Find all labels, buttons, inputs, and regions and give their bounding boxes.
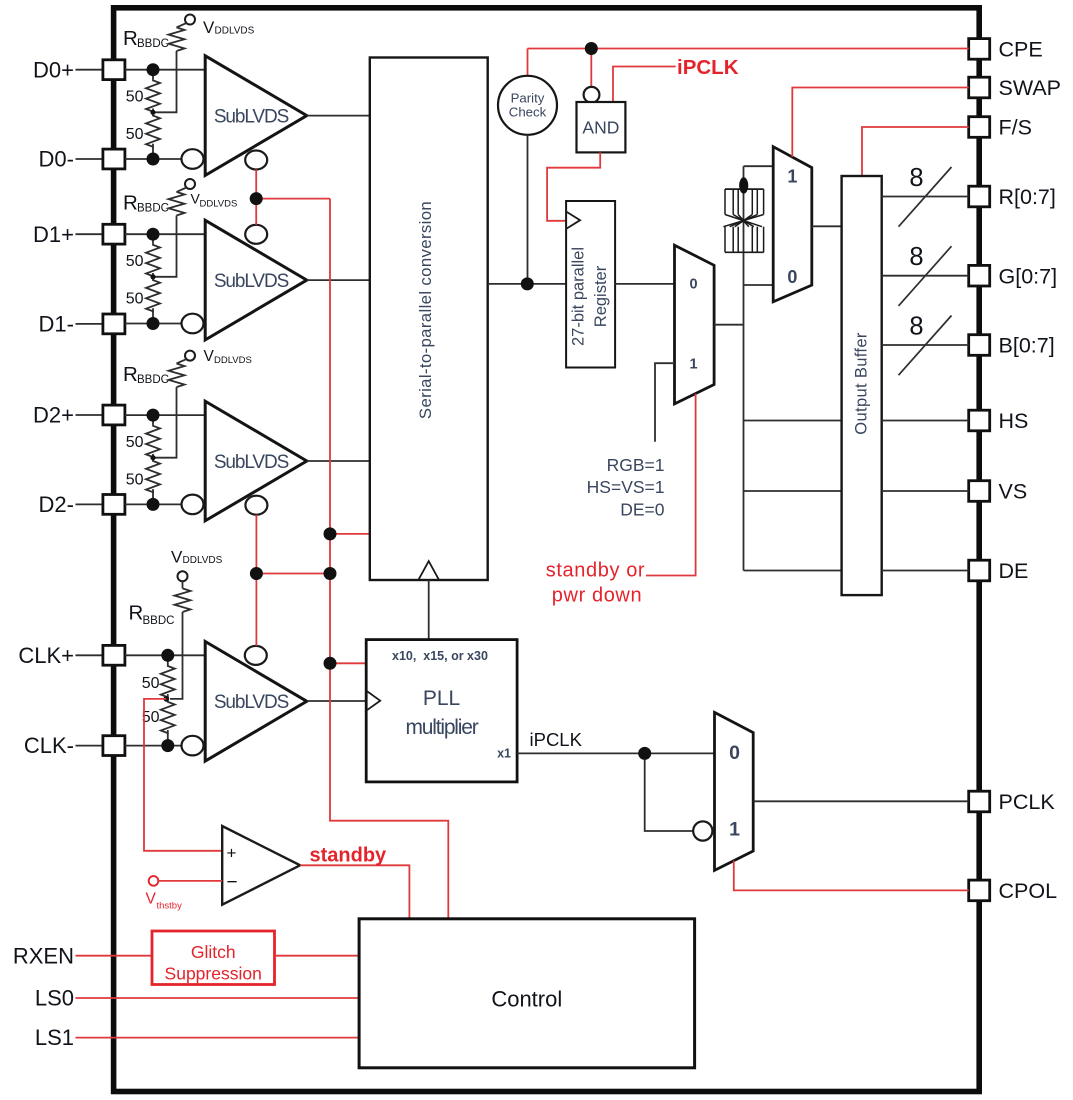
- register 27-bit parallel U2: [566, 201, 615, 368]
- junction node D1-: [147, 317, 160, 330]
- junction node enable D0/D1: [250, 192, 263, 205]
- junction node parity tap: [521, 277, 534, 290]
- junction node enable D2/CLK: [250, 567, 263, 580]
- svg-text:BBDC: BBDC: [137, 38, 169, 50]
- wire CLK+ input line: [125, 654, 205, 656]
- svg-text:50: 50: [126, 89, 144, 106]
- wire VS branch: [744, 490, 842, 492]
- svg-text:DDLVDS: DDLVDS: [215, 26, 255, 37]
- enable bubble under D2 amp: [245, 496, 267, 515]
- wire CPOL select (red): [734, 861, 969, 891]
- pin CLK-: [24, 733, 125, 758]
- wire F/S select (red): [862, 127, 969, 176]
- svg-text:CLK+: CLK+: [18, 643, 74, 668]
- wire AND output to register clock (red): [547, 152, 600, 220]
- wire iPCLK into AND gate (red): [613, 67, 676, 103]
- junction node bus/PLL: [324, 657, 337, 670]
- svg-text:iPCLK: iPCLK: [530, 729, 583, 750]
- wire R[0:7] bus: [882, 164, 969, 227]
- pin VS: [969, 480, 1027, 504]
- pin RXEN: [13, 943, 74, 968]
- wire vertical data net: [743, 166, 745, 570]
- wire glitch suppression to control (red): [275, 955, 360, 957]
- block control: [359, 919, 694, 1068]
- pin DE: [969, 559, 1029, 583]
- svg-text:8: 8: [909, 164, 923, 192]
- enable bubble under D0 amp: [245, 151, 267, 170]
- svg-text:DDLVDS: DDLVDS: [200, 198, 238, 209]
- wire forced value input to mux U3: [655, 363, 675, 442]
- junction node termination midpoint (D1): [150, 274, 155, 279]
- svg-text:RGB=1: RGB=1: [607, 455, 665, 475]
- enable bubble above D1 amp: [245, 225, 267, 244]
- pin F/S: [969, 116, 1032, 140]
- wire D1- input line: [125, 323, 182, 325]
- pin D2-: [39, 492, 125, 517]
- svg-text:0: 0: [690, 276, 698, 292]
- svg-text:Parity: Parity: [511, 90, 545, 105]
- junction node iPCLK: [638, 747, 651, 760]
- svg-text:HS: HS: [999, 409, 1029, 433]
- svg-text:BBDC: BBDC: [137, 374, 169, 386]
- svg-text:PLL: PLL: [423, 687, 460, 710]
- svg-text:1: 1: [729, 819, 740, 841]
- pin LS1: [35, 1025, 74, 1050]
- resistor 50 ohm lower (D0): [126, 109, 160, 160]
- wire parity check to CPE net (red): [527, 49, 529, 77]
- svg-text:BBDC: BBDC: [143, 615, 175, 627]
- svg-text:V: V: [203, 18, 215, 37]
- resistor 50 ohm upper (D1): [126, 234, 160, 277]
- junction node termination midpoint (CLK): [164, 696, 170, 702]
- op-amp SubLVDS receiver (D2 channel): [205, 401, 307, 521]
- wire red bus into serial-to-parallel box: [330, 533, 370, 535]
- wire G[0:7] bus: [882, 243, 969, 306]
- svg-text:SubLVDS: SubLVDS: [214, 452, 289, 473]
- wire LS0 (red): [76, 997, 360, 999]
- wire enable branch to bus (red): [256, 198, 330, 200]
- wire CLK amp output to PLL: [307, 700, 366, 702]
- block serial-to-parallel conversion: [370, 58, 488, 581]
- power terminal V_thstby (red): [146, 876, 223, 911]
- pin CPE: [969, 38, 1043, 62]
- wire AND gate tap (red): [590, 49, 592, 88]
- wire parity check output: [527, 135, 529, 284]
- svg-text:standby: standby: [310, 845, 388, 867]
- resistor 50 ohm upper (D2): [126, 415, 160, 458]
- svg-text:1: 1: [787, 166, 797, 186]
- svg-text:50: 50: [126, 253, 144, 270]
- wire SWAP select (red): [792, 88, 968, 158]
- pin D1-: [39, 312, 125, 337]
- svg-text:R: R: [129, 602, 144, 625]
- svg-text:Control: Control: [491, 987, 562, 1012]
- resistor 50 ohm lower (D2): [126, 454, 160, 505]
- svg-text:1: 1: [690, 357, 698, 373]
- svg-text:+: +: [227, 844, 237, 863]
- label RGB=1 HS=VS=1 DE=0: [587, 455, 665, 520]
- svg-text:V: V: [146, 891, 157, 908]
- wire HS output: [882, 420, 969, 422]
- svg-text:0: 0: [787, 267, 797, 287]
- wire iPCLK to PCLK mux: [517, 752, 714, 754]
- power terminal V_DDLVDS (D2 channel): [177, 348, 252, 366]
- block glitch suppression (red): [152, 931, 275, 985]
- pin PCLK: [969, 790, 1056, 814]
- wire VS output: [882, 490, 969, 492]
- chip boundary frame: [114, 8, 980, 1092]
- wire enable D0 bubble to D1 bubble (red): [255, 170, 257, 225]
- wire mux U3 output: [714, 324, 743, 326]
- wire DE output: [882, 570, 969, 572]
- svg-text:CPE: CPE: [999, 38, 1043, 62]
- wire D1 amp output: [307, 279, 370, 281]
- op-amp SubLVDS receiver (CLK channel): [205, 642, 307, 762]
- resistor 50 ohm upper (CLK): [142, 655, 175, 698]
- svg-text:F/S: F/S: [999, 116, 1032, 140]
- inverter bubble on PCLK mux input 1: [693, 821, 712, 840]
- svg-text:D2-: D2-: [39, 492, 74, 517]
- svg-text:DE=0: DE=0: [620, 500, 665, 520]
- svg-text:8: 8: [909, 313, 923, 341]
- junction node termination midpoint (D2): [150, 455, 155, 460]
- wire red bus into PLL: [330, 662, 366, 664]
- svg-text:SubLVDS: SubLVDS: [214, 692, 289, 713]
- svg-text:LS0: LS0: [35, 986, 74, 1011]
- resistor 50 ohm upper (D0): [126, 70, 160, 113]
- svg-text:D0-: D0-: [39, 147, 74, 172]
- svg-text:SubLVDS: SubLVDS: [214, 271, 289, 292]
- svg-text:Output Buffer: Output Buffer: [853, 332, 871, 435]
- wire enable D2 bubble to CLK bubble (red): [255, 515, 257, 646]
- svg-text:27-bit parallel: 27-bit parallel: [570, 247, 588, 346]
- junction node termination midpoint (D0): [150, 110, 155, 115]
- mux U4 (swap mux): [773, 147, 812, 302]
- pin HS: [969, 409, 1029, 433]
- wire data net to swap mux input 1: [744, 165, 774, 167]
- wire CLK- input line: [125, 745, 182, 747]
- wire RXEN into glitch suppression (red): [76, 955, 153, 957]
- svg-text:VS: VS: [999, 480, 1028, 504]
- inverter bubble on AND gate input: [584, 87, 600, 103]
- clock input symbol on PLL: [366, 691, 380, 711]
- junction node D2+: [147, 409, 160, 422]
- junction node CPE/AND: [585, 42, 598, 55]
- pin CPOL: [969, 879, 1057, 903]
- junction node D1+: [147, 228, 160, 241]
- wire D0+ input line: [125, 69, 205, 71]
- op-amp SubLVDS receiver (D1 channel): [205, 220, 307, 340]
- resistor R_BBDC (D2 channel): [123, 363, 185, 458]
- junction node D2-: [147, 498, 160, 511]
- clock input symbol on register: [566, 212, 580, 229]
- svg-text:0: 0: [729, 742, 740, 764]
- power terminal V_DDLVDS (D0 channel): [177, 15, 255, 38]
- svg-text:R[0:7]: R[0:7]: [999, 185, 1056, 209]
- wire red enable bus vertical: [330, 199, 448, 919]
- resistor R_BBDC (D1 channel): [123, 192, 185, 277]
- wire D2+ input line: [125, 414, 205, 416]
- pin B[0:7]: [969, 334, 1055, 358]
- resistor R_BBDC (D0 channel): [123, 27, 185, 112]
- parity check circle U5: [498, 76, 557, 135]
- label standby or pwr down (red): [546, 559, 645, 606]
- svg-text:Suppression: Suppression: [165, 964, 262, 984]
- power terminal V_DDLVDS (D1 channel): [177, 179, 238, 209]
- wire serial-to-parallel output to register: [488, 283, 566, 285]
- resistor R_BBDC (CLK channel): [129, 588, 191, 699]
- svg-text:D0+: D0+: [33, 57, 74, 82]
- junction node on swap symbol: [739, 177, 748, 193]
- pin D0+: [33, 57, 125, 82]
- inverting input bubble (D0-): [182, 149, 204, 169]
- resistor 50 ohm lower (CLK): [142, 694, 175, 746]
- wire CLK termination tap to comparator (red): [144, 699, 222, 851]
- svg-text:DE: DE: [999, 559, 1029, 583]
- wire CPE net (red): [528, 48, 969, 50]
- junction node bus/s2p: [324, 527, 337, 540]
- wire standby select to mux U3 (red): [646, 394, 696, 576]
- block PLL multiplier: [366, 640, 517, 782]
- svg-text:pwr down: pwr down: [552, 584, 642, 606]
- wire iPCLK inverted branch: [645, 753, 693, 831]
- svg-text:50: 50: [126, 471, 144, 488]
- resistor 50 ohm lower (D1): [126, 273, 160, 324]
- wire enable branch D2/CLK to bus (red): [256, 573, 330, 575]
- svg-text:DDLVDS: DDLVDS: [214, 355, 252, 366]
- svg-text:V: V: [171, 548, 183, 567]
- svg-text:BBDC: BBDC: [137, 203, 169, 215]
- svg-text:Register: Register: [592, 265, 610, 327]
- svg-text:LS1: LS1: [35, 1025, 74, 1050]
- AND gate U6: [577, 102, 626, 152]
- pin G[0:7]: [969, 264, 1057, 288]
- inverting input bubble (D1-): [182, 314, 204, 334]
- svg-text:V: V: [204, 348, 215, 365]
- svg-text:50: 50: [142, 675, 160, 692]
- wire PLL clock to serial-to-parallel: [428, 580, 430, 640]
- op-amp SubLVDS receiver (D0 channel): [205, 56, 307, 176]
- junction node CLK-: [161, 739, 174, 752]
- svg-text:iPCLK: iPCLK: [677, 56, 739, 79]
- wire D0- input line: [125, 158, 182, 160]
- svg-text:G[0:7]: G[0:7]: [999, 264, 1058, 288]
- svg-text:SubLVDS: SubLVDS: [214, 107, 289, 128]
- svg-text:x1: x1: [497, 747, 511, 761]
- power terminal V_DDLVDS (CLK channel): [171, 548, 223, 589]
- svg-text:8: 8: [909, 243, 923, 271]
- pin SWAP: [969, 76, 1061, 100]
- pin D1+: [33, 222, 125, 247]
- bit-swap symbol: [723, 189, 763, 252]
- svg-text:RXEN: RXEN: [13, 943, 74, 968]
- svg-text:−: −: [227, 872, 238, 893]
- svg-text:R: R: [123, 27, 138, 50]
- svg-text:Check: Check: [509, 104, 547, 119]
- wire DE branch: [744, 570, 842, 572]
- svg-text:50: 50: [126, 126, 144, 143]
- wire mux U4 output to output buffer: [812, 225, 842, 227]
- mux U7 (PCLK polarity mux): [715, 712, 754, 870]
- mux U3 (forced-value mux): [675, 245, 715, 404]
- wire standby output (red): [300, 865, 409, 919]
- pin LS0: [35, 986, 74, 1011]
- pin D0-: [39, 147, 125, 172]
- svg-text:thstby: thstby: [157, 901, 183, 912]
- svg-text:D2+: D2+: [33, 403, 74, 428]
- wire D1+ input line: [125, 233, 205, 235]
- inverting input bubble (CLK-): [182, 736, 204, 756]
- pin R[0:7]: [969, 185, 1056, 209]
- wire D2 amp output: [307, 460, 370, 462]
- svg-text:50: 50: [126, 291, 144, 308]
- wire LS1 (red): [76, 1037, 360, 1039]
- wire HS branch: [744, 420, 842, 422]
- svg-text:CPOL: CPOL: [999, 879, 1058, 903]
- svg-text:PCLK: PCLK: [999, 790, 1056, 814]
- svg-text:DDLVDS: DDLVDS: [183, 555, 223, 566]
- wire PCLK output: [753, 800, 969, 802]
- enable bubble above CLK amp: [245, 646, 267, 665]
- svg-text:R: R: [123, 363, 138, 386]
- svg-text:AND: AND: [582, 118, 619, 138]
- svg-text:Serial-to-parallel conversion: Serial-to-parallel conversion: [416, 201, 435, 419]
- svg-text:x10, x15, or x30: x10, x15, or x30: [392, 649, 488, 663]
- block output buffer: [842, 176, 882, 595]
- pin D2+: [33, 403, 125, 428]
- junction node CLK+: [161, 649, 174, 662]
- wire B[0:7] bus: [882, 313, 969, 376]
- junction node D0+: [147, 63, 160, 76]
- pin CLK+: [18, 643, 125, 668]
- svg-text:B[0:7]: B[0:7]: [999, 334, 1055, 358]
- svg-text:R: R: [123, 192, 138, 215]
- svg-text:SWAP: SWAP: [999, 76, 1062, 100]
- svg-text:50: 50: [126, 434, 144, 451]
- svg-text:standby or: standby or: [546, 559, 645, 581]
- junction node bus/enable: [324, 567, 337, 580]
- comparator U8 (standby threshold): [222, 826, 300, 905]
- svg-text:HS=VS=1: HS=VS=1: [587, 477, 665, 497]
- svg-text:D1+: D1+: [33, 222, 74, 247]
- svg-text:D1-: D1-: [39, 312, 74, 337]
- wire D0 amp output: [307, 115, 370, 117]
- wire D2- input line: [125, 503, 182, 505]
- wire data net to swap mux input 0: [744, 284, 774, 286]
- clock input symbol on serial-to-parallel box: [419, 561, 439, 580]
- svg-text:multiplier: multiplier: [405, 716, 478, 739]
- svg-text:CLK-: CLK-: [24, 733, 74, 758]
- inverting input bubble (D2-): [182, 495, 204, 515]
- wire register output to RGB mux: [615, 283, 674, 285]
- junction node D0-: [147, 153, 160, 166]
- svg-text:Glitch: Glitch: [191, 942, 236, 962]
